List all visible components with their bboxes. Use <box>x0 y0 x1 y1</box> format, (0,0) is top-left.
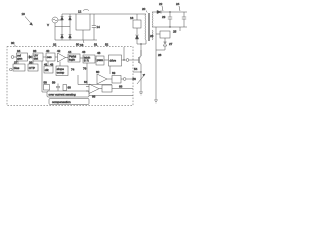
svg-text:43: 43 <box>50 62 54 66</box>
junction dot <box>169 11 170 12</box>
wire source down <box>140 64 142 92</box>
label 12 <box>78 10 89 14</box>
svg-text:42: 42 <box>57 49 61 53</box>
block 44 <box>68 54 80 62</box>
wire 34 to 36 <box>28 56 34 58</box>
pin circle gate <box>126 59 129 62</box>
wire opto left <box>156 33 160 35</box>
block 40 osc <box>46 53 55 61</box>
wire comp64 out <box>99 88 102 90</box>
svg-text:24: 24 <box>176 2 180 6</box>
diode D2a <box>69 17 72 20</box>
svg-text:34: 34 <box>17 49 21 53</box>
pin circle 2 <box>10 68 13 71</box>
block 48 <box>96 56 104 65</box>
wire latch down <box>86 63 88 85</box>
clamp box <box>133 20 141 28</box>
wide block 72 compensation <box>49 99 89 105</box>
wide block 70 current sensing <box>47 91 89 97</box>
svg-text:51: 51 <box>94 43 98 47</box>
figure pointer arrow <box>25 17 33 26</box>
wire label22 tick <box>162 6 163 11</box>
wire 46 to 48 <box>95 58 96 60</box>
svg-text:36: 36 <box>33 49 37 53</box>
svg-text:54: 54 <box>134 67 138 71</box>
diode D1b <box>61 35 64 38</box>
wire 40 to comparator <box>55 56 58 58</box>
wire comp to edge <box>126 78 133 80</box>
wire label24 tick <box>179 6 180 11</box>
pin circle comp <box>123 78 126 81</box>
figure label 10 <box>22 12 26 16</box>
svg-text:10: 10 <box>22 12 26 16</box>
controller dashed box <box>7 47 133 106</box>
bridge leg1 wire <box>61 14 63 40</box>
wire 39 up <box>32 61 34 64</box>
block 65 <box>102 85 112 92</box>
wire 62 out <box>121 78 123 80</box>
block 34 <box>17 53 28 61</box>
svg-text:44: 44 <box>68 50 72 54</box>
zener TL431 <box>163 42 166 50</box>
svg-text:48: 48 <box>97 51 101 55</box>
small res 61 <box>63 85 67 91</box>
wire box bottom <box>82 30 84 40</box>
svg-text:logic: logic <box>69 58 76 62</box>
block 62 <box>112 76 121 84</box>
wire mid horizontal <box>42 91 47 93</box>
svg-text:64: 64 <box>84 80 88 84</box>
svg-text:50: 50 <box>76 43 80 47</box>
svg-text:68: 68 <box>119 85 123 89</box>
capacitor 59 <box>56 84 60 92</box>
svg-text:28: 28 <box>158 53 162 57</box>
junction dot drain <box>140 43 141 44</box>
svg-text:26: 26 <box>150 34 154 38</box>
wire from driver down <box>109 66 111 74</box>
svg-text:OTP: OTP <box>29 66 35 70</box>
bridge leg2 wire <box>69 14 71 40</box>
block driver <box>109 55 122 66</box>
wire 70 to edge <box>89 95 133 97</box>
svg-text:74: 74 <box>71 68 75 72</box>
wire return to divider <box>155 27 157 100</box>
wire secondary top rail <box>152 11 187 13</box>
svg-text:23: 23 <box>162 15 166 19</box>
svg-text:compensation: compensation <box>52 100 71 104</box>
svg-text:S R: S R <box>84 59 90 63</box>
svg-text:32: 32 <box>53 43 57 47</box>
svg-text:pwm: pwm <box>97 58 104 62</box>
diode D2b <box>69 35 72 38</box>
wire AC down <box>54 27 56 41</box>
svg-text:V: V <box>47 23 49 27</box>
wire 38 up <box>17 61 19 64</box>
wire opto down <box>164 38 166 42</box>
ground mosfet <box>139 92 143 95</box>
wire pin to gate <box>129 59 139 61</box>
junction dot <box>169 26 170 27</box>
svg-text:30: 30 <box>11 41 15 45</box>
wire comp to 44 <box>66 57 69 59</box>
svg-text:22: 22 <box>159 2 163 6</box>
wire 36 to 40 <box>43 56 46 58</box>
capacitor C4 output <box>182 12 186 27</box>
wire primary bottom to drain <box>141 40 146 56</box>
diode between blocks <box>29 55 32 58</box>
wire 44 to 46 <box>80 57 83 59</box>
wire opamp out <box>107 78 112 80</box>
svg-text:drive: drive <box>110 59 117 63</box>
svg-text:58: 58 <box>44 81 48 85</box>
wire feedback under opamp <box>78 75 112 85</box>
svg-text:osc: osc <box>47 55 52 59</box>
label 20 transformer <box>142 7 147 13</box>
pin circle <box>11 56 14 59</box>
comparator 64 <box>84 80 99 94</box>
wire 65 to edge <box>112 88 133 90</box>
transformer secondary winding <box>152 12 153 27</box>
label 18 <box>80 40 84 47</box>
diode D2 output <box>157 10 161 13</box>
filter box 12 <box>76 14 90 30</box>
svg-text:14: 14 <box>97 25 101 29</box>
transformer core <box>148 13 149 41</box>
wire bottom rail <box>55 39 97 41</box>
comparator input stubs <box>86 87 89 92</box>
wire 48 to driver <box>104 59 109 61</box>
capacitor C3 output <box>168 12 172 27</box>
sense resistor arrow <box>137 74 145 84</box>
wire diode to drain <box>137 39 141 44</box>
wire clamp top <box>136 14 138 20</box>
junction dot <box>140 71 141 72</box>
wire sense tap <box>133 71 141 73</box>
svg-text:comp: comp <box>57 70 65 74</box>
wire top rail <box>90 13 146 15</box>
svg-text:20: 20 <box>142 7 146 11</box>
svg-text:56: 56 <box>133 77 137 81</box>
svg-text:27: 27 <box>169 42 173 46</box>
opamp 60 <box>97 74 107 84</box>
wire 41 up <box>47 61 49 66</box>
AC source VAC <box>52 17 58 23</box>
svg-text:over current sensing: over current sensing <box>49 92 77 96</box>
svg-text:18: 18 <box>80 43 84 47</box>
mosfet Q1 <box>139 50 142 64</box>
svg-text:59: 59 <box>52 81 56 85</box>
block 46 <box>83 55 95 63</box>
wire 43 up <box>59 62 61 67</box>
wire AC to leg1 <box>58 19 62 21</box>
wire AC bottom to leg2 <box>55 23 70 27</box>
svg-text:40: 40 <box>46 49 50 53</box>
wire vcc down <box>123 47 125 60</box>
svg-text:76: 76 <box>83 67 87 71</box>
svg-text:clk: clk <box>45 68 49 72</box>
svg-text:12: 12 <box>78 10 82 14</box>
svg-text:60: 60 <box>96 70 100 74</box>
svg-text:16: 16 <box>130 16 134 20</box>
stub output2 <box>173 27 180 34</box>
wire zener to divider <box>156 49 165 51</box>
wire secondary return rail <box>152 26 187 28</box>
ground right <box>154 100 158 103</box>
block 43 <box>56 66 68 76</box>
wire mid vertical <box>41 61 43 92</box>
svg-text:68: 68 <box>68 86 72 90</box>
svg-text:bias: bias <box>14 66 20 70</box>
block 41 <box>44 66 53 73</box>
transformer aux winding <box>152 30 153 40</box>
capacitor C1 <box>92 14 96 40</box>
wire clamp bottom <box>136 28 138 34</box>
transformer T1 primary winding <box>145 14 146 40</box>
block 39 <box>28 64 38 71</box>
svg-text:46: 46 <box>82 50 86 54</box>
svg-text:52: 52 <box>105 43 109 47</box>
small box 58 <box>44 85 50 91</box>
block 38 <box>13 64 25 71</box>
comparator 42 <box>58 53 66 62</box>
block 36 <box>33 53 43 61</box>
svg-text:gen: gen <box>17 57 22 61</box>
svg-text:25: 25 <box>173 30 177 34</box>
feedback box opto <box>160 31 170 38</box>
svg-text:66: 66 <box>92 95 96 99</box>
svg-text:63: 63 <box>112 71 116 75</box>
junction dot <box>123 59 124 60</box>
diode D1 clamp <box>135 35 138 39</box>
tick 30 <box>15 45 16 47</box>
wire pin to box 34 <box>14 56 17 58</box>
wire top rail left <box>62 13 76 15</box>
diode D1a <box>61 17 64 20</box>
svg-text:det: det <box>34 57 38 61</box>
wire driver to pin <box>122 59 127 61</box>
